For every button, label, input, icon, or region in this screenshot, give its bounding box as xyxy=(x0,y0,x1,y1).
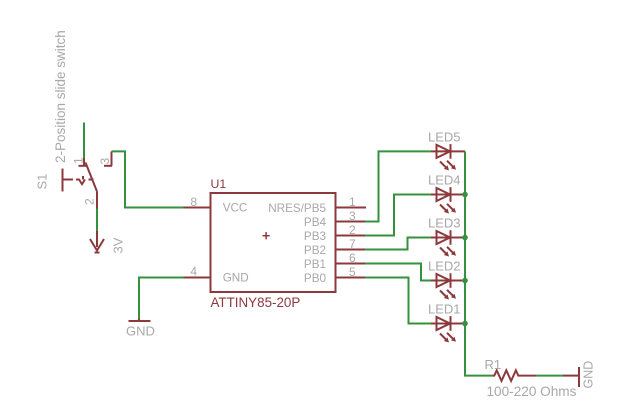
LED LED3 xyxy=(431,230,465,253)
svg-text:NRES/PB5: NRES/PB5 xyxy=(268,202,326,215)
U1 pin 1 stub xyxy=(336,207,367,209)
svg-text:LED1: LED1 xyxy=(428,302,461,317)
junction at LED3 cathode xyxy=(462,235,468,241)
U1 pin 2 stub xyxy=(336,235,366,237)
svg-text:1: 1 xyxy=(72,157,86,164)
LED LED1 xyxy=(431,316,465,339)
svg-text:3: 3 xyxy=(98,158,112,165)
switch S1 xyxy=(63,151,113,208)
LED LED2 xyxy=(431,273,465,296)
ground GND right xyxy=(563,367,579,387)
LED LED5 xyxy=(431,144,465,167)
wire battery stub to S1 pin 1 xyxy=(83,123,85,159)
U1 pin 3 stub xyxy=(336,221,366,223)
wire S1 pin 3 to U1 pin 8 xyxy=(112,151,184,207)
wire U1 pin 3 to LED5 xyxy=(365,151,431,221)
junction at LED4 cathode xyxy=(462,192,468,198)
U1 pin 6 stub xyxy=(336,263,366,265)
svg-text:LED5: LED5 xyxy=(428,130,461,145)
svg-text:S1: S1 xyxy=(35,174,50,190)
wire resistor to ground xyxy=(536,375,563,377)
svg-text:5: 5 xyxy=(349,265,356,279)
svg-text:3: 3 xyxy=(349,209,356,223)
wire S1 pin 2 to 3V supply xyxy=(96,209,98,232)
wire U1 pin 6 to LED2 xyxy=(365,264,431,281)
svg-text:LED4: LED4 xyxy=(428,173,461,188)
svg-text:GND: GND xyxy=(223,272,249,285)
junction at LED2 cathode xyxy=(462,278,468,284)
wire U1 pin 5 to LED1 xyxy=(365,278,431,324)
svg-text:7: 7 xyxy=(349,237,356,251)
U1 pin 4 stub xyxy=(184,277,211,279)
svg-text:1: 1 xyxy=(349,195,356,209)
svg-text:PB1: PB1 xyxy=(304,258,326,271)
wire U1 pin 7 to LED3 xyxy=(365,238,431,250)
svg-text:U1: U1 xyxy=(211,177,227,191)
U1 pin 7 stub xyxy=(336,249,366,251)
svg-text:2-Position slide switch: 2-Position slide switch xyxy=(53,30,68,163)
svg-text:VCC: VCC xyxy=(223,202,248,215)
ground GND below U1 xyxy=(129,319,151,322)
resistor R1 xyxy=(492,370,536,381)
svg-text:PB0: PB0 xyxy=(304,272,327,285)
svg-text:GND: GND xyxy=(582,361,596,389)
svg-text:2: 2 xyxy=(349,223,356,237)
svg-text:3V: 3V xyxy=(111,237,126,253)
svg-text:8: 8 xyxy=(190,195,197,209)
U1 pin 5 stub xyxy=(336,277,366,279)
svg-text:100-220 Ohms: 100-220 Ohms xyxy=(487,384,577,399)
svg-text:2: 2 xyxy=(83,198,97,205)
wire U1 pin 4 to ground xyxy=(139,278,184,319)
U1 pin 8 stub xyxy=(184,207,211,209)
LED LED4 xyxy=(431,187,465,210)
svg-text:LED2: LED2 xyxy=(428,259,461,274)
svg-text:GND: GND xyxy=(126,324,155,339)
svg-text:LED3: LED3 xyxy=(428,216,461,231)
supply 3V xyxy=(90,231,104,253)
IC U1 body xyxy=(211,193,336,292)
svg-text:4: 4 xyxy=(190,265,197,279)
svg-text:PB2: PB2 xyxy=(304,244,326,257)
wire LED cathode bus to resistor xyxy=(465,151,492,375)
wire U1 pin 2 to LED4 xyxy=(365,195,431,236)
IC U1 internal plus mark xyxy=(263,232,270,239)
svg-text:ATTINY85-20P: ATTINY85-20P xyxy=(211,295,301,310)
junction at LED1 cathode xyxy=(462,321,468,327)
svg-text:6: 6 xyxy=(349,251,356,265)
svg-text:PB3: PB3 xyxy=(304,230,326,243)
svg-text:R1: R1 xyxy=(485,357,502,372)
svg-text:PB4: PB4 xyxy=(304,216,327,229)
